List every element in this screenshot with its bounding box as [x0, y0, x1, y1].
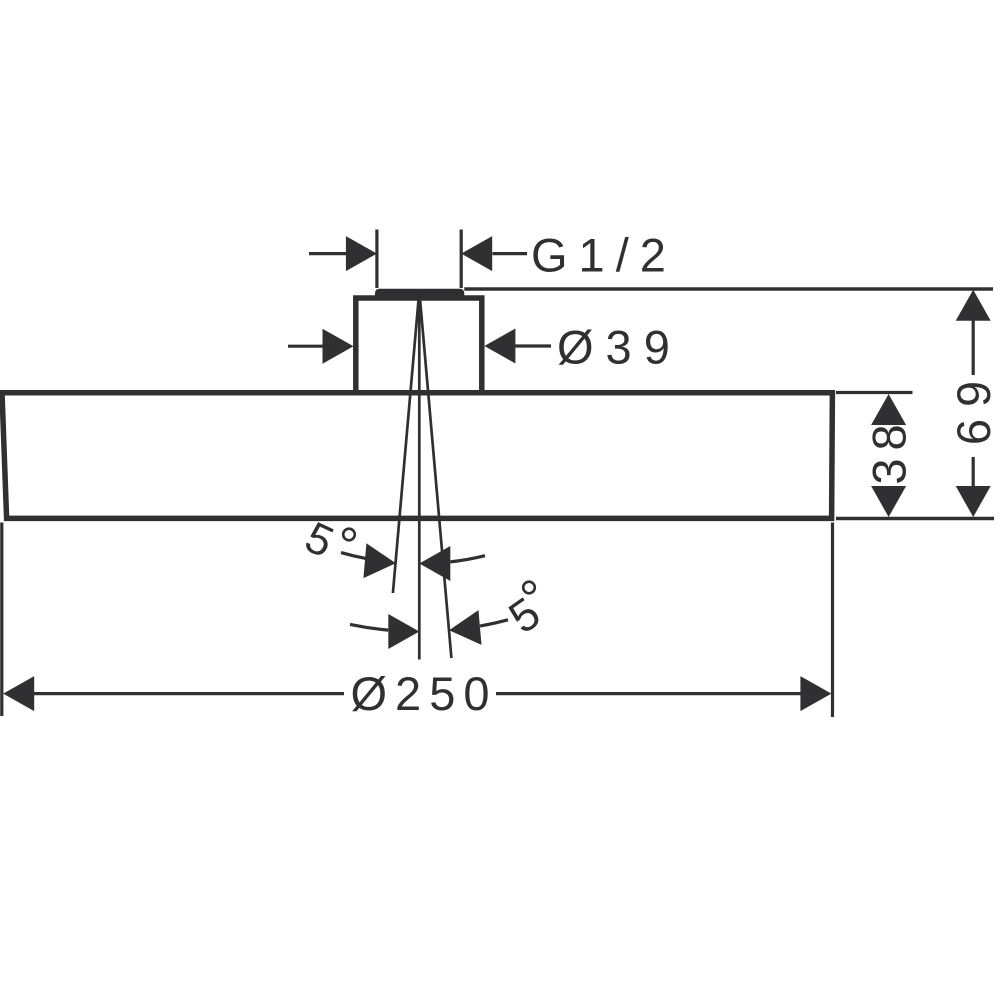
- G1/2 arrowhead pointing right: [346, 236, 377, 271]
- diameter 250 arrowhead pointing left: [3, 676, 34, 711]
- shared bottom extension line for 38 and 69: [836, 517, 994, 520]
- diameter 250 arrowhead pointing right: [800, 676, 831, 711]
- 69 arrowhead pointing down: [956, 486, 991, 517]
- G1/2 dimension extension line right: [460, 230, 463, 289]
- lower 5-degree arc right segment: [480, 620, 508, 626]
- diameter 39 arrowhead pointing left: [484, 329, 515, 364]
- lower 5-degree left arrowhead: [388, 614, 419, 649]
- 38 dimension extension line top: [836, 391, 913, 394]
- lower 5-degree label degree ring: [523, 582, 535, 594]
- G1/2 dimension extension line left: [375, 230, 378, 289]
- 38 arrowhead pointing up: [871, 394, 906, 425]
- diameter 250 dimension line left segment: [33, 692, 344, 695]
- svg-text:Ø250: Ø250: [351, 667, 498, 720]
- upper 5-degree arc right segment: [450, 556, 485, 562]
- spray cone right 5-degree line: [419, 291, 451, 658]
- svg-text:69: 69: [947, 369, 1000, 445]
- connector cap (G1/2 thread collar): [375, 289, 464, 297]
- diameter 250 extension line left: [0, 523, 3, 717]
- upper 5-degree right arrowhead: [419, 546, 450, 581]
- diameter 39 dimension line right: [513, 344, 551, 347]
- diameter 250 dimension line right segment: [496, 692, 802, 695]
- spray cone left 5-degree line: [393, 291, 419, 593]
- diameter 39 dimension line left: [288, 345, 327, 348]
- upper 5-degree left arrowhead: [363, 543, 397, 581]
- diameter 250 extension line right: [831, 523, 834, 718]
- upper 5-degree arc left segment: [341, 553, 367, 559]
- diameter 39 arrowhead pointing right: [323, 329, 354, 364]
- inlet connector body: [356, 298, 482, 397]
- spray cone center vertical line: [418, 291, 421, 660]
- 38 arrowhead pointing down: [871, 486, 906, 517]
- svg-text:G1/2: G1/2: [531, 229, 677, 282]
- 69 dimension line lower segment: [972, 457, 975, 488]
- upper 5-degree label degree ring: [343, 529, 355, 541]
- lower 5-degree arc left segment: [350, 624, 388, 630]
- G1/2 dimension line left: [309, 252, 348, 255]
- lower 5-degree right arrowhead: [448, 610, 482, 648]
- svg-text:Ø39: Ø39: [557, 321, 682, 374]
- svg-text:38: 38: [863, 416, 916, 484]
- G1/2 arrowhead pointing left: [461, 236, 492, 271]
- 69 arrowhead pointing up: [956, 290, 991, 321]
- 69 dimension line upper segment: [972, 319, 975, 375]
- shower head disk body: [2, 393, 832, 519]
- 69 dimension top extension line from cap: [464, 287, 993, 290]
- G1/2 dimension line right: [493, 252, 528, 255]
